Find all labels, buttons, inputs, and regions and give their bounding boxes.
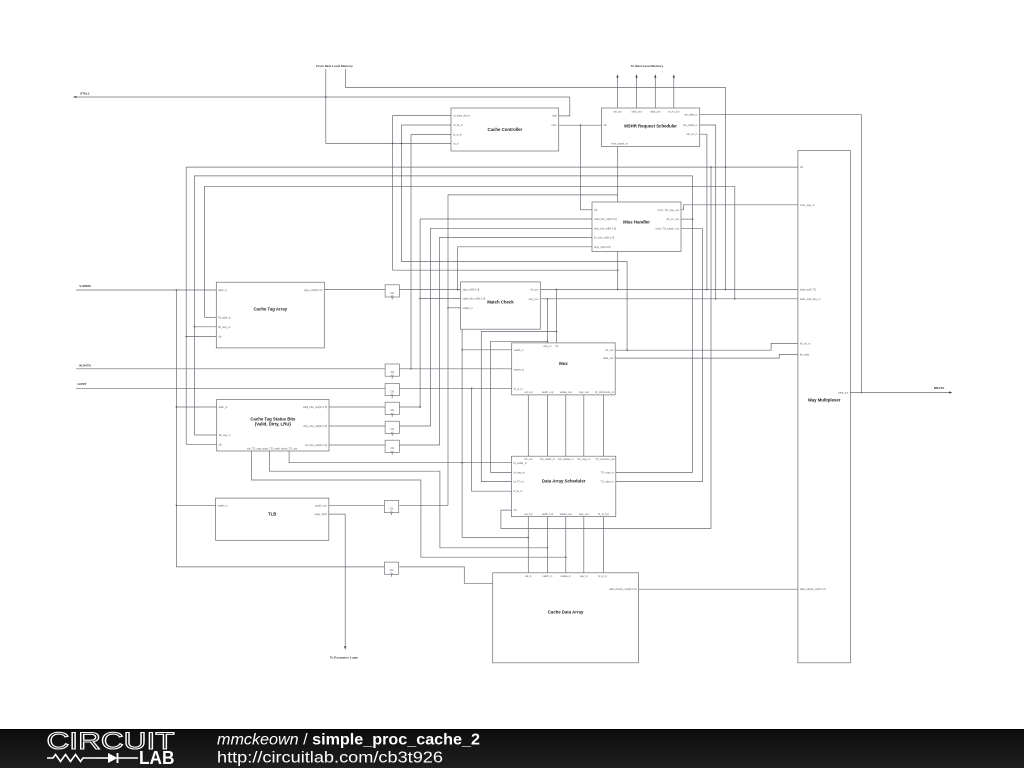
svg-text:val_out: val_out	[524, 512, 533, 516]
svg-text:To Next Level Memory: To Next Level Memory	[631, 64, 664, 68]
junction vaddr x176	[176, 289, 178, 291]
svg-text:dirty_bits_out[W-1:0]: dirty_bits_out[W-1:0]	[303, 424, 327, 428]
svg-text:evict_TO_way_out: evict_TO_way_out	[658, 208, 680, 212]
junction x715 at way line	[715, 298, 717, 300]
wire vaddr tap vertical x462	[461, 290, 463, 538]
svg-text:way_out: way_out	[579, 390, 589, 394]
wire MSHR top pin 3 vertical	[654, 77, 656, 109]
svg-text:Data Array Scheduler: Data Array Scheduler	[542, 478, 586, 483]
svg-text:addr_in: addr_in	[218, 288, 227, 292]
svg-text:wb_en_out: wb_en_out	[666, 217, 679, 221]
wire miss vertical x580	[580, 125, 582, 210]
wire DataSched bottom pin 4 to CacheDataArray	[583, 517, 585, 573]
junction tags x457	[457, 289, 459, 291]
svg-text:TO_way_in: TO_way_in	[601, 470, 615, 474]
wire lru net	[399, 237, 592, 445]
wire W.DATA left	[76, 368, 385, 370]
wire page fault vertical	[344, 514, 346, 647]
wire ldst to DataSched	[472, 388, 512, 491]
svg-text:val_in: val_in	[525, 574, 532, 578]
wire RDATA out	[850, 392, 950, 394]
wire DataSched bottom pin 5 to CacheDataArray	[603, 517, 605, 573]
junction x627 at hit_out line	[626, 349, 628, 351]
svg-text:wdata_out: wdata_out	[560, 512, 572, 516]
svg-text:st_en_out: st_en_out	[668, 110, 680, 114]
svg-text:fvb_wdata_in: fvb_wdata_in	[558, 457, 574, 461]
junction x617 at hit line	[617, 289, 619, 291]
svg-text:valid_bits_in[W-1:0]: valid_bits_in[W-1:0]	[594, 217, 617, 221]
svg-text:(Valid, Dirty, LRU): (Valid, Dirty, LRU)	[255, 421, 292, 426]
wire MSHR top pin 4 vertical	[673, 77, 675, 109]
block U11 Way Multiplexer	[798, 151, 851, 663]
wire Mux bottom pin 2 to DataSched	[546, 395, 548, 456]
svg-text:way_in: way_in	[580, 574, 589, 578]
svg-text:From Next Level Memory: From Next Level Memory	[316, 64, 353, 68]
wire clk stub to StatusBits	[186, 443, 217, 445]
wire STALL horizontal	[75, 96, 570, 98]
svg-text:evict_way_in: evict_way_in	[800, 203, 815, 207]
junction clk bus tag clk	[185, 336, 187, 338]
wire y261 horizontal	[401, 261, 627, 263]
svg-text:MSHR Request Scheduler: MSHR Request Scheduler	[624, 123, 677, 128]
svg-text:TO_success_out: TO_success_out	[595, 457, 615, 461]
wire STALL to CacheController stall pin	[559, 97, 570, 116]
svg-text:ld_st_out: ld_st_out	[598, 512, 609, 516]
wire MSHR wb_en down x706	[700, 134, 707, 289]
wire x861 vertical	[861, 115, 863, 393]
svg-text:Way Multiplexer: Way Multiplexer	[808, 397, 841, 402]
junction x411 at wdata line	[410, 368, 412, 370]
svg-text:hit: hit	[556, 344, 559, 348]
junction y143 x401	[401, 143, 403, 145]
junction valid line	[419, 406, 421, 408]
junction x861 at data out line	[861, 392, 863, 394]
wire clk drop to DataSched	[501, 167, 711, 528]
wire way to Mux top	[546, 299, 548, 343]
svg-text:fill_addr_in: fill_addr_in	[218, 315, 231, 319]
svg-text:LAB: LAB	[139, 748, 175, 768]
svg-text:Cache Tag Array: Cache Tag Array	[253, 306, 287, 311]
svg-text:data_blocks_in[W-1:0]: data_blocks_in[W-1:0]	[800, 587, 826, 591]
wire clk stub to CacheTagArray	[186, 336, 216, 338]
wire Mux bottom pin 1 to DataSched	[527, 395, 529, 456]
svg-text:ld_vaddr_in: ld_vaddr_in	[514, 461, 528, 465]
svg-text:RDATA: RDATA	[934, 386, 945, 390]
svg-text:tags_in[W-1:0]: tags_in[W-1:0]	[463, 288, 480, 292]
wire fill_way stub to CacheTagArray	[194, 326, 216, 328]
svg-text:Mux: Mux	[559, 361, 568, 366]
wire tags_out to register	[324, 289, 385, 291]
logo resistor zigzag	[47, 755, 97, 762]
arrow to next level memory 1	[616, 74, 618, 77]
wire hit to Mux top	[555, 290, 557, 343]
svg-text:data_out: data_out	[838, 391, 848, 395]
wire vaddr to Mux	[462, 349, 512, 351]
wire MSHR top pin 1 vertical	[617, 77, 619, 109]
svg-text:fvb_vaddr_in: fvb_vaddr_in	[540, 457, 555, 461]
block U3 Miss Handler	[592, 202, 681, 252]
junction x734 at way line	[734, 298, 736, 300]
wire Mux bottom pin 5 to DataSched	[603, 395, 605, 456]
svg-text:wdata_in: wdata_in	[514, 368, 525, 372]
svg-text:Cache Controller: Cache Controller	[488, 127, 523, 132]
svg-text:wdata_out: wdata_out	[560, 390, 572, 394]
svg-text:paddr_in: paddr_in	[463, 306, 474, 310]
wire MSHR wb_paddr down x715	[700, 125, 716, 299]
svg-text:wb_en_in: wb_en_in	[687, 132, 699, 136]
wire vaddr delay line left	[176, 566, 385, 568]
svg-text:data_stall_way_in: data_stall_way_in	[800, 297, 821, 301]
junction way branch	[547, 340, 549, 342]
arrow to next level memory 3	[654, 74, 656, 77]
wire Mux data_out to WayMux	[615, 354, 798, 358]
junction vaddr tlb	[176, 504, 178, 506]
wire TLB page_fault stub	[329, 513, 345, 515]
svg-text:data_out: data_out	[650, 110, 660, 114]
junction x706 at hit line	[706, 289, 708, 291]
svg-text:lru_bits_in[W-1:0]: lru_bits_in[W-1:0]	[594, 235, 614, 239]
wire way branch to DataSched	[491, 341, 548, 472]
svg-text:ld_st/success_in: ld_st/success_in	[595, 390, 615, 394]
junction y270 at x617	[617, 269, 619, 271]
svg-text:ld_st_in: ld_st_in	[514, 387, 523, 391]
junction path C drop	[461, 462, 463, 464]
svg-text:page_fault: page_fault	[315, 512, 327, 516]
junction ldst branch	[471, 387, 473, 389]
block U10 Cache Data Array	[493, 573, 639, 663]
junction x692 wb_en	[692, 218, 694, 220]
register R6 lru	[385, 440, 399, 455]
svg-text:data_blocks_out[W-1:0]: data_blocks_out[W-1:0]	[609, 587, 636, 591]
wire vaddr vertical x176	[175, 290, 177, 567]
wire paddr register out	[399, 504, 448, 506]
junction paddr at MatchCheck stub	[447, 307, 449, 309]
arrow to next level memory 4	[673, 74, 675, 77]
register R3 ldst	[385, 384, 399, 399]
wire CacheController pin1 stub	[393, 115, 451, 117]
wire ldst register out to Mux	[399, 387, 511, 389]
wire to MissHandler clk pin	[581, 209, 593, 211]
wire data_blocks to WayMux	[638, 588, 798, 590]
logo diode	[108, 753, 118, 763]
junction fill_way tag	[194, 326, 196, 328]
svg-text:http://circuitlab.com/cb3t926: http://circuitlab.com/cb3t926	[217, 750, 443, 767]
svg-text:Match Check: Match Check	[487, 299, 514, 304]
svg-text:Cache Data Array: Cache Data Array	[548, 609, 584, 614]
junction y143 x392	[392, 143, 394, 145]
junction path A wdata col	[565, 556, 567, 558]
wire valid_bits_out to register	[329, 406, 385, 408]
block U2 MSHR Request Scheduler	[602, 108, 700, 147]
svg-text:paddr_out: paddr_out	[315, 503, 327, 507]
svg-text:evict_TO_paddr_out: evict_TO_paddr_out	[656, 227, 680, 231]
wire statusbits wb path B	[269, 451, 547, 548]
wire x725 vertical to clk bus	[725, 87, 727, 167]
wire way line y298	[540, 298, 798, 300]
svg-text:fvb_way_in: fvb_way_in	[577, 457, 591, 461]
wire paddr vertical x448	[447, 195, 449, 505]
svg-text:data_out: data_out	[603, 356, 613, 360]
svg-text:tlb_data: tlb_data	[800, 352, 810, 356]
junction STALL x325	[325, 96, 327, 98]
junction vaddr tap mux	[461, 349, 463, 351]
wire evict way to WayMux	[681, 205, 798, 210]
svg-text:way_out: way_out	[529, 297, 539, 301]
svg-text:V.ADDR: V.ADDR	[79, 284, 91, 288]
svg-text:tags_out[W-1:0]: tags_out[W-1:0]	[304, 288, 323, 292]
junction vaddr tap top	[461, 289, 463, 291]
wire vaddr to TLB	[176, 504, 215, 506]
block U9 Data Array Scheduler	[512, 456, 616, 516]
wire x627 vertical	[626, 262, 628, 351]
svg-text:tags_in[W-1:0]: tags_in[W-1:0]	[594, 245, 611, 249]
wire dirty net	[399, 228, 592, 426]
wire Mux hit_out to WayMux	[615, 343, 798, 350]
wire V.ADDR horizontal	[76, 289, 216, 291]
svg-text:TLB: TLB	[268, 511, 276, 516]
svg-text:ld_st_in: ld_st_in	[514, 489, 523, 493]
svg-text:tlb_hit_in: tlb_hit_in	[800, 341, 811, 345]
svg-text:ld_way_in: ld_way_in	[514, 470, 526, 474]
svg-text:lru_bits_out[W-1:0]: lru_bits_out[W-1:0]	[305, 443, 327, 447]
svg-text:vaddr_in: vaddr_in	[218, 503, 229, 507]
wire CacheController pin4 from mem stub	[326, 143, 451, 145]
wire fill_addr bus y186	[205, 186, 735, 317]
svg-text:ld_st_in: ld_st_in	[598, 574, 607, 578]
svg-text:rd_in: rd_in	[453, 142, 459, 146]
wire vaddr delay to CacheDataArray	[399, 567, 492, 583]
svg-text:miss: miss	[551, 123, 557, 127]
svg-text:mmckeown / simple_proc_cache_2: mmckeown / simple_proc_cache_2	[217, 732, 480, 749]
svg-text:valid_bits_out[W-1:0]: valid_bits_out[W-1:0]	[303, 405, 327, 409]
svg-text:rd_data_vld_in: rd_data_vld_in	[453, 114, 471, 118]
wire MissHandler wb_en stub	[681, 218, 693, 220]
junction x725 at hit line	[725, 289, 727, 291]
wire MSHR miss_paddr vertical x617	[617, 147, 619, 290]
wire miss: CacheController to MSHR	[559, 124, 602, 126]
svg-text:fvb_out: fvb_out	[524, 457, 533, 461]
wire path C to val col	[462, 537, 528, 539]
register R2 wdata	[385, 364, 399, 379]
wire paddr to MatchCheck pin	[448, 307, 461, 309]
svg-text:val_out: val_out	[613, 110, 622, 114]
svg-text:wb_TO_way_data_TO_valid_/write: wb_TO_way_data_TO_valid_/write_TO_val	[247, 447, 297, 451]
arrow STALL left	[73, 96, 76, 98]
register R4 valid	[385, 402, 399, 417]
wire wdata register out to Mux	[399, 368, 511, 370]
wire CacheController pin3 stub	[411, 134, 451, 136]
svg-text:val_out: val_out	[524, 390, 533, 394]
wire fill_way stub to StatusBits	[194, 434, 216, 436]
wire evict paddr to DataSched	[616, 229, 703, 482]
block U1 Cache Controller	[451, 108, 559, 151]
svg-text:Miss Handler: Miss Handler	[623, 219, 650, 224]
wire statusbits wb path C to DataSched pin1	[289, 451, 511, 463]
wire fill_addr stub to CacheTagArray	[205, 316, 217, 318]
svg-text:TO_data_in: TO_data_in	[600, 480, 614, 484]
svg-text:hit_out: hit_out	[531, 288, 539, 292]
wire DataSched bottom pin 3 to CacheDataArray	[565, 517, 567, 573]
junction miss net	[580, 124, 582, 126]
wire vaddr to StatusBits	[176, 406, 216, 408]
wire Mux bottom pin 3 to DataSched	[565, 395, 567, 456]
svg-text:To Exception Logic: To Exception Logic	[330, 655, 359, 659]
wire DataSched bottom pin 1 to CacheDataArray	[527, 517, 529, 573]
junction path B vaddr col	[547, 547, 549, 549]
svg-text:ld_st_in: ld_st_in	[453, 133, 462, 137]
svg-text:way_in: way_in	[543, 344, 552, 348]
wire x392 vertical	[392, 116, 394, 271]
svg-text:ld_TO_in: ld_TO_in	[514, 480, 525, 484]
wire Mux bottom pin 4 to DataSched	[583, 395, 585, 456]
wire tags reg to MatchCheck	[399, 289, 460, 291]
wire from-mem stub2 vertical	[344, 69, 346, 87]
svg-text:miss_paddr_in: miss_paddr_in	[611, 141, 628, 145]
wire valid vertical x420	[419, 219, 421, 407]
svg-text:W.DATA: W.DATA	[79, 363, 92, 367]
svg-text:fill_way_in: fill_way_in	[218, 325, 231, 329]
wire x411 vertical	[410, 135, 412, 369]
arrow to next level memory 2	[635, 74, 637, 77]
wire hit line y289	[540, 289, 798, 291]
svg-text:vaddr_out: vaddr_out	[542, 512, 554, 516]
block U8 TLB	[216, 498, 329, 540]
wire hit branch to DataSched	[481, 332, 556, 482]
wire lru_bits_out to register	[329, 444, 385, 446]
wire CacheController pin2 stub	[401, 124, 451, 126]
junction clk bus x711	[710, 166, 712, 168]
arrow RDATA	[949, 391, 952, 393]
wire miss paddr horizontal y194	[448, 194, 618, 196]
svg-text:vaddr_in: vaddr_in	[542, 574, 553, 578]
wire TLB paddr_out to register	[329, 504, 385, 506]
svg-text:fill_way_in: fill_way_in	[219, 433, 232, 437]
junction hit x556	[556, 289, 558, 291]
wire MissHandler valid stub	[420, 218, 592, 220]
svg-text:dirty_bits_in[W-1:0]: dirty_bits_in[W-1:0]	[594, 227, 616, 231]
svg-text:data_stall_TO: data_stall_TO	[800, 288, 816, 292]
wire x725 vertical lower	[725, 167, 727, 289]
wire DataSched bottom pin 2 to CacheDataArray	[546, 517, 548, 573]
junction vaddr status	[176, 406, 178, 408]
svg-text:hit_out: hit_out	[605, 348, 613, 352]
wire x692 to DataSched right pin	[616, 471, 693, 473]
wire tags to MissHandler	[458, 247, 592, 290]
svg-text:addr_in: addr_in	[219, 405, 228, 409]
svg-text:wb_data_in: wb_data_in	[684, 113, 698, 117]
wire y270 horizontal	[393, 269, 618, 271]
register R8 vaddr delay	[384, 562, 398, 577]
junction path C val col	[527, 537, 529, 539]
wire valid register out	[399, 406, 420, 408]
junction valid to MatchCheck	[419, 298, 421, 300]
svg-text:STALL: STALL	[80, 92, 90, 96]
wire from-mem horizontal y87	[345, 86, 725, 88]
svg-text:vaddr_in: vaddr_in	[514, 348, 525, 352]
svg-text:stall: stall	[552, 114, 557, 118]
junction way x547	[547, 298, 549, 300]
wire x692 vertical	[692, 176, 694, 473]
wire x734 vertical	[734, 186, 736, 298]
register R5 dirty	[385, 421, 399, 436]
junction hit branch	[556, 331, 558, 333]
svg-text:rd_tlb_in: rd_tlb_in	[453, 123, 464, 127]
wire x401 vertical	[400, 125, 402, 262]
block U4 Cache Tag Array	[216, 282, 324, 348]
svg-text:way_out: way_out	[579, 512, 589, 516]
junction clk bus x725	[725, 166, 727, 168]
block U7 Cache Tag Status Bits	[217, 400, 329, 452]
wire MSHR wb_data to x861	[700, 114, 862, 116]
svg-text:addr_out: addr_out	[631, 110, 642, 114]
wire clk bus y167	[186, 167, 798, 444]
register R1 tags	[385, 285, 399, 300]
block U5 Match Check	[461, 282, 541, 329]
wire from-mem stub1 vertical	[325, 69, 327, 144]
wire statusbits wb path A	[252, 451, 566, 557]
arrow to exception logic	[344, 646, 346, 649]
svg-text:LD/ST: LD/ST	[78, 382, 87, 386]
wire fill_way bus y175	[194, 176, 692, 435]
wire MSHR top pin 2 vertical	[636, 77, 638, 109]
wire LD/ST left	[76, 387, 385, 389]
svg-text:vaddr_out: vaddr_out	[542, 390, 554, 394]
register R7 paddr	[384, 501, 398, 516]
wire valid to MatchCheck pin	[420, 297, 461, 299]
svg-text:valid_bits_in[W-1:0]: valid_bits_in[W-1:0]	[463, 296, 486, 300]
wire dirty_bits_out to register	[329, 425, 385, 427]
svg-text:wb_paddr_in: wb_paddr_in	[683, 123, 698, 127]
block U6 Mux	[512, 343, 616, 395]
svg-text:wdata_in: wdata_in	[561, 574, 572, 578]
